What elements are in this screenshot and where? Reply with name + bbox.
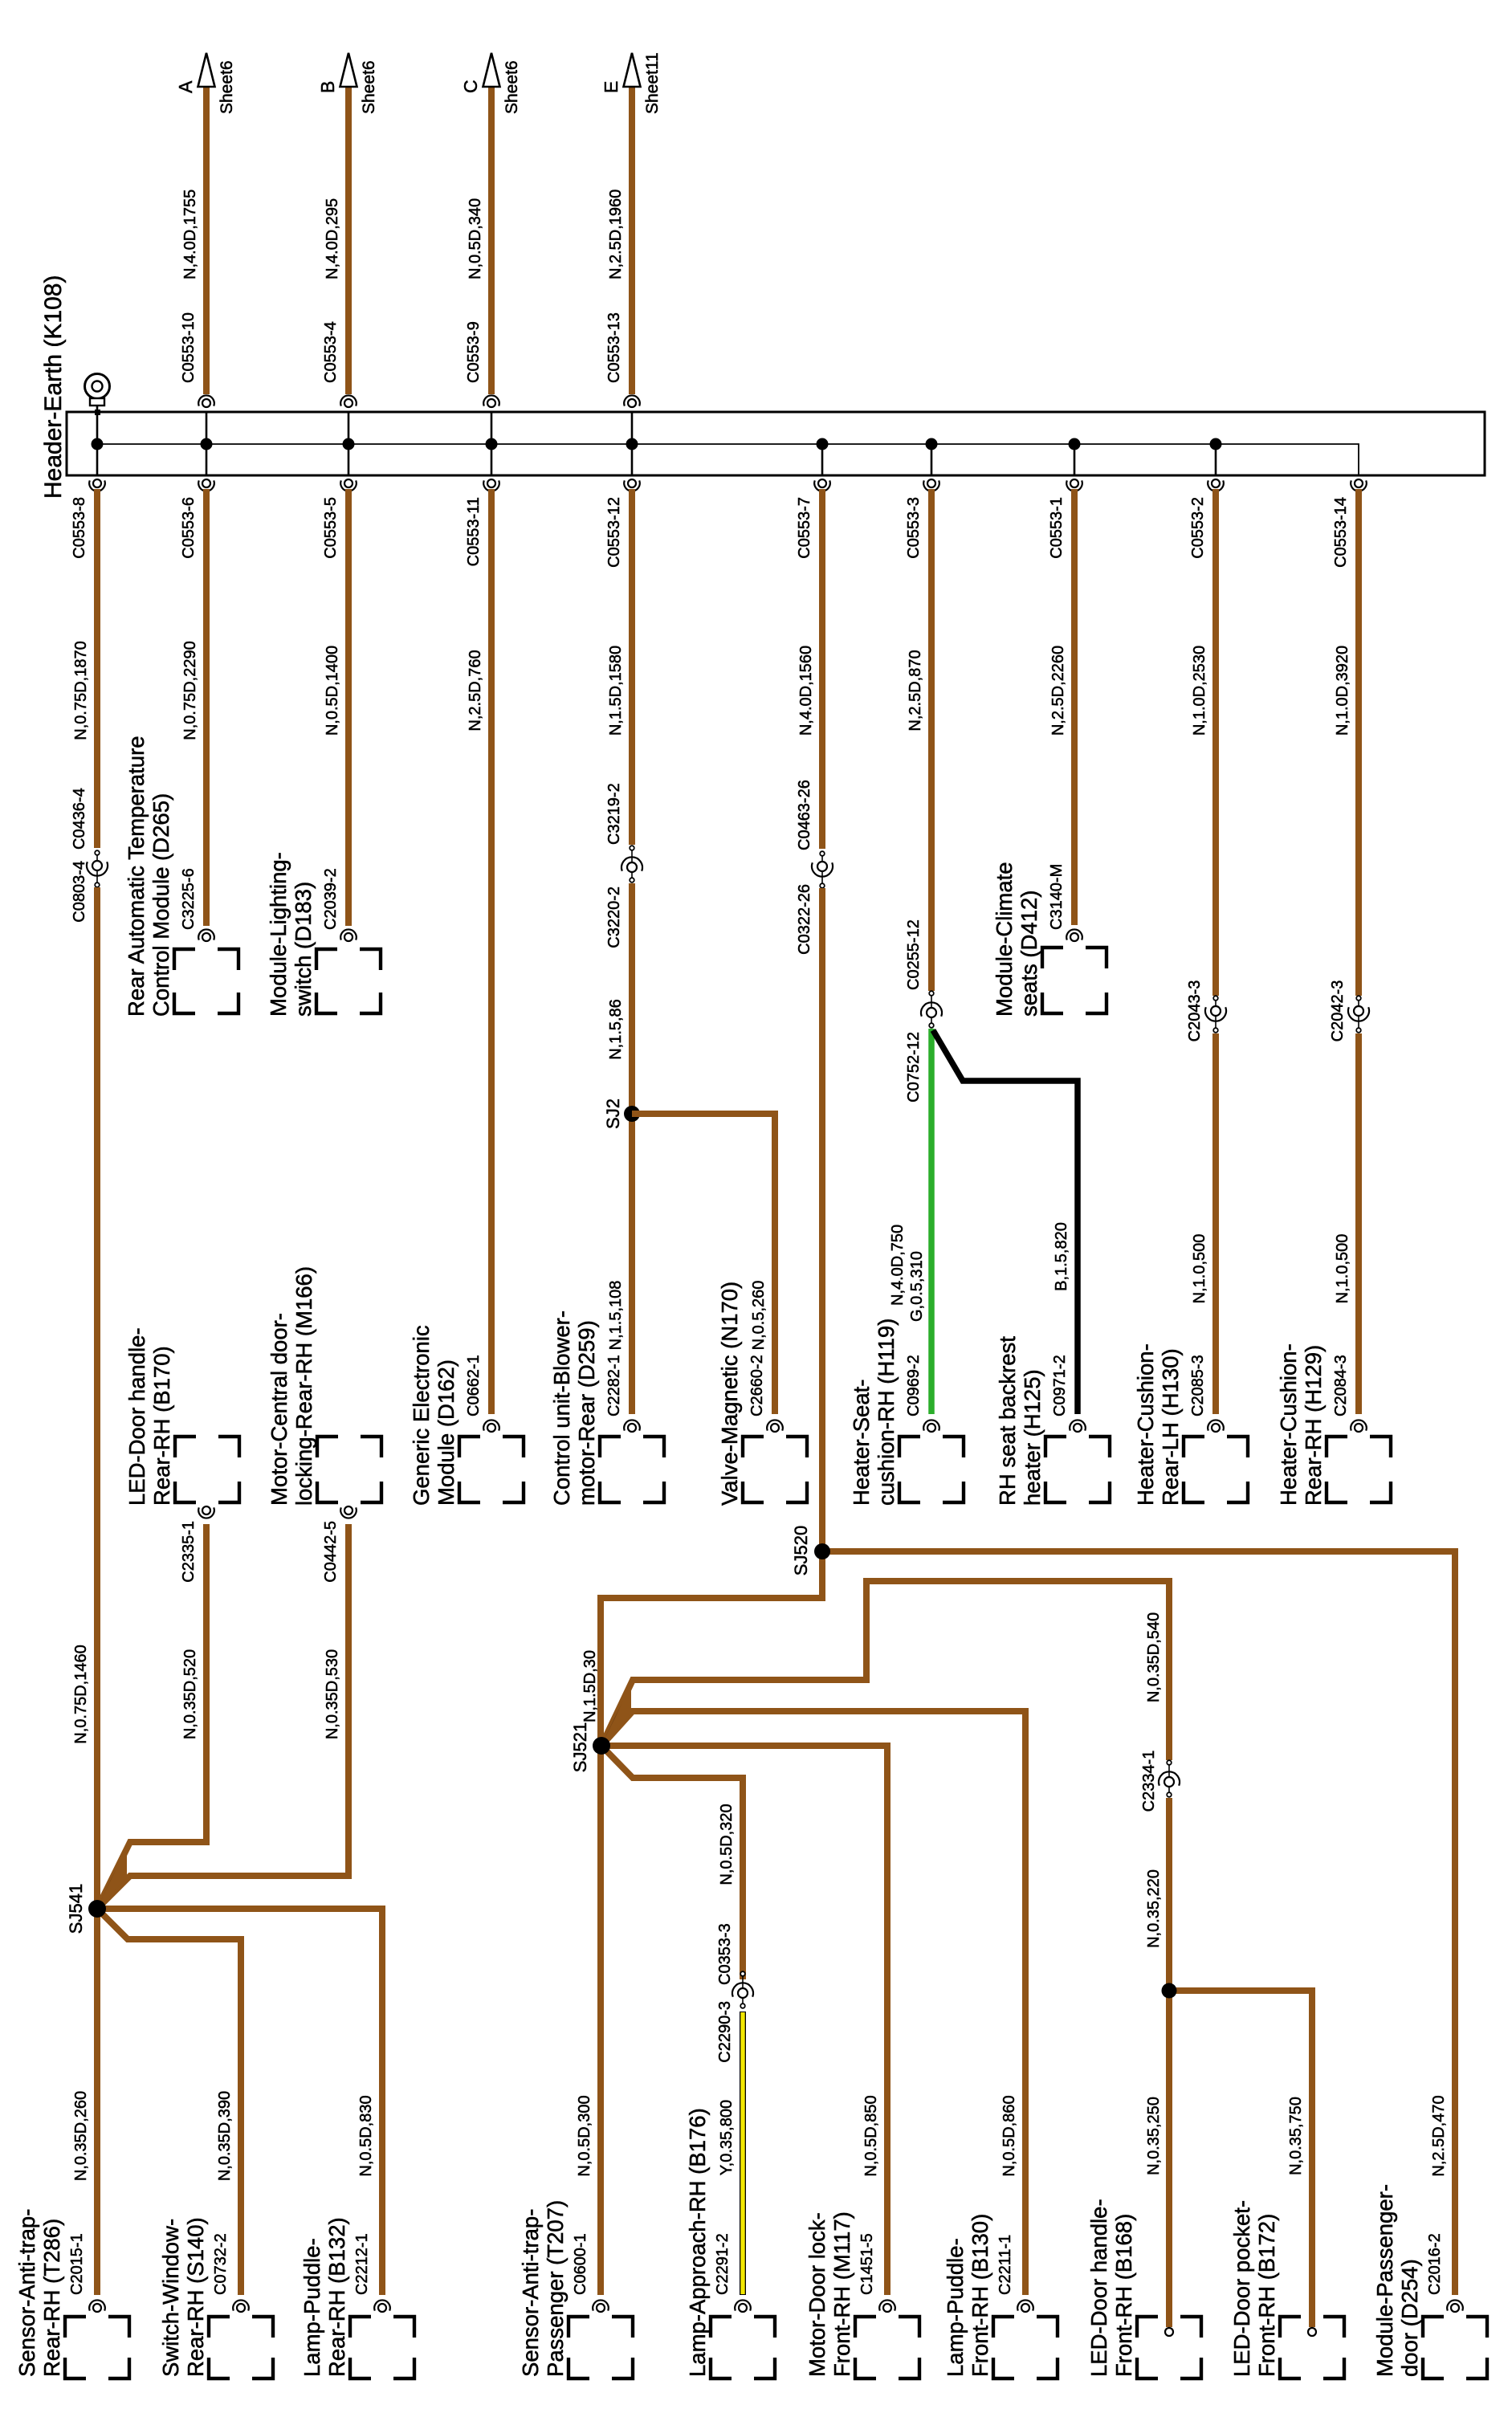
svg-text:N,1.0,500: N,1.0,500: [1334, 1234, 1351, 1304]
svg-text:C2039-2: C2039-2: [322, 868, 340, 930]
svg-text:B,1.5,820: B,1.5,820: [1053, 1222, 1070, 1291]
component M117 Motor-Door lock-Front-RH: [805, 2211, 919, 2378]
inline connector C2290-3 / C0353-3: [742, 1974, 744, 2006]
svg-text:C0662-1: C0662-1: [465, 1355, 483, 1416]
component T286 Sensor-Anti-trap-Rear-RH: [14, 2209, 129, 2378]
svg-text:C0752-12: C0752-12: [905, 1032, 923, 1103]
svg-text:Control Module (D265): Control Module (D265): [149, 793, 173, 1017]
svg-text:N,4.0D,1560: N,4.0D,1560: [797, 646, 815, 736]
svg-text:N,0.5D,300: N,0.5D,300: [576, 2095, 593, 2176]
bus stub x=612: [491, 412, 493, 475]
svg-text:C0553-11: C0553-11: [465, 497, 483, 566]
svg-text:C0553-12: C0553-12: [605, 497, 623, 568]
svg-text:Rear-RH (T286): Rear-RH (T286): [39, 2219, 64, 2377]
svg-text:N,0.35D,260: N,0.35D,260: [72, 2091, 90, 2181]
wire to sheet arrow C: [488, 84, 495, 394]
wire SJ520 down-left to SJ521: [601, 1551, 822, 1746]
svg-text:C3140-M: C3140-M: [1048, 864, 1066, 930]
svg-text:C2085-3: C2085-3: [1189, 1355, 1207, 1416]
wire column C0553-8 upper segment: [94, 489, 100, 848]
component D162 Generic Electronic Module: [409, 1325, 524, 1506]
wire C2334-1 down to branch junction: [1166, 1798, 1172, 1991]
svg-text:Module-Lighting-: Module-Lighting-: [266, 852, 291, 1017]
svg-text:N,0.5D,860: N,0.5D,860: [1001, 2095, 1018, 2176]
sheet arrow E: [624, 53, 641, 87]
svg-text:Sensor-Anti-trap-: Sensor-Anti-trap-: [518, 2209, 543, 2377]
svg-text:Rear Automatic Temperature: Rear Automatic Temperature: [124, 736, 149, 1017]
svg-text:A: A: [175, 80, 196, 93]
svg-text:C0553-2: C0553-2: [1189, 497, 1207, 559]
svg-text:SJ521: SJ521: [570, 1722, 590, 1772]
svg-text:N,0.5D,830: N,0.5D,830: [357, 2095, 375, 2176]
svg-text:N,0.35,220: N,0.35,220: [1145, 1869, 1163, 1948]
pin C2282-1: [624, 1420, 640, 1430]
svg-text:C0553-7: C0553-7: [796, 497, 813, 559]
bus pin C0553-9: [483, 395, 499, 406]
svg-text:Passenger (T207): Passenger (T207): [543, 2200, 568, 2377]
svg-text:N,1.5D,1580: N,1.5D,1580: [607, 646, 625, 736]
svg-text:C0322-26: C0322-26: [796, 884, 813, 955]
bus pin C0553-1: [1066, 480, 1082, 491]
wire branch to B172: [1169, 1991, 1312, 2327]
wire SJ521 branch to B176: [601, 1746, 743, 1979]
svg-text:Lamp-Approach-RH (B176): Lamp-Approach-RH (B176): [685, 2108, 710, 2377]
wire column C0553-14 upper segment: [1355, 489, 1362, 996]
bus pin C0553-6: [198, 480, 214, 491]
svg-text:Front-RH (B168): Front-RH (B168): [1111, 2214, 1136, 2377]
bus stub x=1338: [1074, 444, 1076, 475]
bus junction dot x=787: [626, 438, 638, 450]
bus pin C0553-2: [1208, 480, 1224, 491]
svg-text:Sensor-Anti-trap-: Sensor-Anti-trap-: [14, 2209, 39, 2377]
wire column C0553-1 to D412: [1071, 489, 1078, 925]
bus pin C0553-8: [89, 480, 105, 491]
svg-text:C3220-2: C3220-2: [605, 887, 623, 948]
svg-text:door (D254): door (D254): [1397, 2259, 1422, 2377]
bus internal wire: [97, 443, 1216, 445]
wire C2042-3 to H129: [1355, 1033, 1362, 1414]
component M166 Motor-Central door-locking-Rear-RH: [267, 1266, 381, 1506]
svg-text:N,0.5D,850: N,0.5D,850: [862, 2095, 880, 2176]
wire column C0553-12 upper segment: [629, 489, 635, 845]
svg-text:C0553-5: C0553-5: [322, 497, 340, 559]
pin C3140-M: [1066, 929, 1082, 940]
svg-text:C0553-14: C0553-14: [1332, 497, 1350, 568]
svg-text:Sheet6: Sheet6: [218, 60, 236, 114]
svg-text:C0353-3: C0353-3: [716, 1923, 734, 1985]
wire to sheet arrow A: [203, 84, 210, 394]
wire junction to B168: [1166, 1991, 1172, 2327]
svg-text:E: E: [601, 81, 622, 93]
svg-text:Valve-Magnetic (N170): Valve-Magnetic (N170): [717, 1282, 742, 1506]
bus stub x=1024: [821, 444, 824, 475]
svg-text:Rear-RH (H129): Rear-RH (H129): [1301, 1345, 1326, 1506]
component D254 Module-Passenger-door: [1372, 2184, 1487, 2378]
junction SJ2: [624, 1106, 640, 1122]
svg-text:LED-Door pocket-: LED-Door pocket-: [1229, 2200, 1254, 2377]
wire column C0553-7 upper segment: [819, 489, 825, 849]
svg-text:C0553-8: C0553-8: [71, 497, 88, 559]
component B168 LED-Door handle-Front-RH: [1086, 2199, 1201, 2378]
svg-text:Switch-Window-: Switch-Window-: [158, 2219, 183, 2377]
pin C2212-1: [374, 2300, 390, 2310]
svg-text:C0553-3: C0553-3: [905, 497, 923, 559]
svg-text:C0971-2: C0971-2: [1051, 1355, 1069, 1416]
svg-text:N,0.35D,530: N,0.35D,530: [324, 1649, 341, 1739]
svg-text:C0969-2: C0969-2: [905, 1355, 923, 1416]
svg-text:C: C: [460, 79, 481, 93]
svg-text:Heater-Cushion-: Heater-Cushion-: [1276, 1343, 1301, 1506]
pin C2660-2: [767, 1420, 783, 1430]
bus pin C0553-13: [624, 395, 640, 406]
wire column C0553-8 lower segment to SJ541 and T286: [94, 887, 100, 2295]
svg-text:N,0.35D,540: N,0.35D,540: [1145, 1612, 1163, 1702]
svg-text:Heater-Cushion-: Heater-Cushion-: [1133, 1343, 1158, 1506]
svg-text:locking-Rear-RH (M166): locking-Rear-RH (M166): [291, 1266, 316, 1506]
component H129 Heater-Cushion-Rear-RH: [1276, 1343, 1391, 1506]
bus junction dot x=1160: [926, 438, 938, 450]
SJ541 junction wedge: [97, 1846, 127, 1909]
svg-text:N,0.35,750: N,0.35,750: [1287, 2097, 1305, 2175]
bus stub x=434: [348, 412, 350, 475]
wire column C0553-6 to D265: [203, 489, 210, 926]
component H125 RH seat backrest heater: [995, 1336, 1110, 1506]
bus stub x=787: [631, 412, 634, 475]
svg-text:C0436-4: C0436-4: [71, 788, 88, 850]
inline connector C3220-2 / C3219-2: [631, 848, 633, 880]
bus junction dot x=434: [343, 438, 355, 450]
svg-text:N,1.0,500: N,1.0,500: [1191, 1234, 1208, 1304]
pin C0969-2: [923, 1420, 939, 1430]
svg-text:C3225-6: C3225-6: [180, 868, 198, 930]
svg-text:N,1.5D,30: N,1.5D,30: [581, 1650, 599, 1722]
svg-text:N,2.5D,2260: N,2.5D,2260: [1049, 646, 1067, 736]
svg-text:Module-Passenger-: Module-Passenger-: [1372, 2184, 1397, 2377]
svg-text:C0442-5: C0442-5: [322, 1521, 340, 1583]
svg-text:N,0.35D,520: N,0.35D,520: [181, 1649, 199, 1739]
svg-text:N,0.5D,340: N,0.5D,340: [467, 198, 484, 279]
inline connector C0322-26 / C0463-26: [821, 854, 823, 886]
svg-text:C2282-1: C2282-1: [605, 1355, 623, 1416]
wire to sheet arrow E: [629, 84, 635, 394]
svg-text:C0553-4: C0553-4: [322, 321, 340, 383]
svg-text:Front-RH (B172): Front-RH (B172): [1254, 2214, 1279, 2377]
wire SJ520 branch right to D254: [822, 1551, 1455, 2295]
pin C0662-1: [483, 1420, 499, 1430]
bus pin C0553-4: [340, 395, 357, 406]
inline connector C2334-1: [1168, 1763, 1170, 1795]
svg-text:Sheet6: Sheet6: [360, 60, 378, 114]
svg-text:N,0.75D,1460: N,0.75D,1460: [72, 1645, 90, 1743]
bus junction dot x=1024: [817, 438, 829, 450]
component N170 Valve-Magnetic: [717, 1282, 807, 1506]
pin C1451-5: [879, 2300, 895, 2310]
wire SJ541 NE branch to M166: [97, 1524, 348, 1909]
black wire to H125: [933, 1030, 1078, 1414]
svg-text:Rear-RH (S140): Rear-RH (S140): [183, 2217, 208, 2377]
svg-text:N,1.0D,3920: N,1.0D,3920: [1334, 646, 1351, 736]
component B132 Lamp-Puddle-Rear-RH: [300, 2217, 414, 2378]
svg-text:C3219-2: C3219-2: [605, 783, 623, 845]
svg-text:C2212-1: C2212-1: [353, 2233, 371, 2295]
svg-text:C2335-1: C2335-1: [180, 1521, 198, 1583]
svg-text:C2042-3: C2042-3: [1329, 980, 1347, 1042]
wire SJ541 SE branch to S140: [97, 1909, 241, 2295]
svg-text:C0463-26: C0463-26: [796, 780, 813, 850]
pin C2016-2: [1447, 2300, 1463, 2310]
svg-text:C0553-6: C0553-6: [180, 497, 198, 559]
pin C2015-1: [89, 2300, 105, 2310]
svg-text:C0553-10: C0553-10: [180, 312, 198, 383]
svg-text:seats (D412): seats (D412): [1017, 891, 1041, 1017]
svg-text:Module (D162): Module (D162): [434, 1359, 458, 1506]
bus stub x=257: [206, 412, 208, 475]
wire SJ541 branch to B132: [97, 1909, 382, 2295]
svg-text:cushion-RH (H119): cushion-RH (H119): [874, 1319, 899, 1506]
header-earth bus K108: [67, 412, 1485, 475]
bus junction dot x=121: [92, 438, 104, 450]
wire SJ541 NE branch to B170: [97, 1524, 206, 1909]
SJ521 junction wedge: [601, 1684, 631, 1746]
wire C2043-3 to H130: [1212, 1033, 1219, 1414]
svg-text:Rear-RH (B132): Rear-RH (B132): [324, 2217, 349, 2377]
component H119 Heater-Seat-cushion-RH: [849, 1319, 964, 1506]
svg-text:N,2.5D,760: N,2.5D,760: [467, 650, 484, 731]
svg-text:N,4.0D,750: N,4.0D,750: [889, 1225, 907, 1306]
svg-text:heater (H125): heater (H125): [1020, 1369, 1045, 1506]
svg-text:Lamp-Puddle-: Lamp-Puddle-: [943, 2238, 968, 2377]
pin C0442-5: [340, 1507, 357, 1518]
bus pin C0553-11: [483, 480, 499, 491]
svg-text:N,0.35D,390: N,0.35D,390: [216, 2091, 234, 2181]
svg-text:N,2.5D,870: N,2.5D,870: [907, 650, 924, 731]
sheet arrow A: [198, 53, 215, 87]
svg-text:N,0.5,260: N,0.5,260: [750, 1281, 768, 1351]
pin C2291-2: [735, 2300, 751, 2310]
svg-text:RH seat backrest: RH seat backrest: [995, 1336, 1020, 1506]
svg-text:C0732-2: C0732-2: [212, 2233, 230, 2295]
component D265 Rear Automatic Temperature Control Module: [124, 736, 238, 1017]
bus pin C0553-12: [624, 480, 640, 491]
component D259 Control unit-Blower-motor-Rear: [549, 1310, 664, 1506]
component D412 Module-Climate seats: [992, 862, 1106, 1017]
svg-text:Sheet11: Sheet11: [643, 52, 662, 114]
wire SJ521 down to T207: [597, 1746, 604, 2295]
svg-text:Rear-LH (H130): Rear-LH (H130): [1158, 1348, 1183, 1506]
svg-text:motor-Rear (D259): motor-Rear (D259): [574, 1320, 599, 1506]
component B170 LED-Door handle-Rear-RH: [124, 1327, 239, 1506]
svg-text:Rear-RH (B170): Rear-RH (B170): [149, 1346, 174, 1506]
component B176 Lamp-Approach-RH: [685, 2108, 775, 2378]
svg-text:switch (D183): switch (D183): [291, 882, 316, 1017]
svg-text:Generic Electronic: Generic Electronic: [409, 1325, 434, 1506]
svg-text:N,0.75D,1870: N,0.75D,1870: [72, 641, 90, 740]
svg-text:Y,0.35,800: Y,0.35,800: [718, 2100, 736, 2175]
wire C3220-2 to SJ2 and D259: [629, 883, 635, 1414]
bus internal wire elbow to C0553-14: [1216, 444, 1359, 475]
svg-text:N,4.0D,1755: N,4.0D,1755: [181, 190, 199, 279]
pin C2085-3: [1208, 1420, 1224, 1430]
inline connector C0752-12 / C0255-12: [931, 993, 932, 1025]
pin C0600-1: [593, 2300, 609, 2310]
component B130 Lamp-Puddle-Front-RH: [943, 2214, 1058, 2378]
bus junction dot x=257: [201, 438, 213, 450]
wire C0322-26 down to SJ520: [819, 888, 825, 1551]
wire to sheet arrow B: [345, 84, 352, 394]
wire SJ2 branch to N170: [632, 1114, 775, 1414]
svg-text:Control unit-Blower-: Control unit-Blower-: [549, 1310, 574, 1506]
svg-text:C2043-3: C2043-3: [1186, 980, 1204, 1042]
bus stub x=1160: [931, 444, 933, 475]
svg-text:G,0.5,310: G,0.5,310: [908, 1251, 926, 1322]
component T207 Sensor-Anti-trap-Passenger: [518, 2200, 633, 2378]
pin C2039-2: [340, 929, 357, 940]
svg-text:C0803-4: C0803-4: [71, 861, 88, 923]
pin C0732-2: [233, 2300, 249, 2310]
yellow wire to B176: [740, 2012, 746, 2295]
svg-text:Heater-Seat-: Heater-Seat-: [849, 1380, 874, 1506]
bus stub at ring terminal column: [96, 406, 99, 475]
bus pin C0553-10: [198, 395, 214, 406]
svg-text:C0553-1: C0553-1: [1048, 497, 1066, 559]
wire SJ521 branch to B130: [601, 1711, 1025, 2295]
svg-text:Motor-Door lock-: Motor-Door lock-: [805, 2212, 829, 2377]
svg-text:C2016-2: C2016-2: [1426, 2233, 1444, 2295]
svg-text:C2290-3: C2290-3: [716, 2001, 734, 2063]
svg-text:N,0.5D,320: N,0.5D,320: [718, 1804, 736, 1885]
svg-text:C0553-9: C0553-9: [465, 321, 483, 383]
svg-text:N,1.5,86: N,1.5,86: [607, 999, 625, 1060]
svg-text:N,0.35,250: N,0.35,250: [1145, 2097, 1163, 2175]
svg-text:C2211-1: C2211-1: [996, 2235, 1014, 2295]
svg-text:Header-Earth (K108): Header-Earth (K108): [40, 275, 67, 499]
svg-text:C2660-2: C2660-2: [748, 1355, 766, 1416]
svg-text:Sheet6: Sheet6: [503, 60, 521, 114]
svg-text:Module-Climate: Module-Climate: [992, 862, 1017, 1017]
green wire to H119: [928, 1029, 935, 1414]
svg-text:N,2.5D,1960: N,2.5D,1960: [607, 190, 625, 279]
svg-text:C2291-2: C2291-2: [714, 2233, 732, 2295]
wire column C0553-3 upper segment: [928, 489, 935, 991]
bus junction dot x=1514: [1210, 438, 1222, 450]
svg-text:C2084-3: C2084-3: [1332, 1355, 1350, 1416]
sheet arrow C: [483, 53, 500, 87]
svg-text:N,1.5,108: N,1.5,108: [607, 1281, 625, 1351]
component S140 Switch-Window-Rear-RH: [158, 2217, 273, 2378]
svg-text:B: B: [317, 81, 338, 93]
svg-text:C0255-12: C0255-12: [905, 919, 923, 990]
wire column C0553-5 to D183: [345, 489, 352, 926]
svg-text:C1451-5: C1451-5: [858, 2233, 876, 2295]
svg-text:Front-RH (B130): Front-RH (B130): [968, 2214, 992, 2377]
wire column C0553-2 upper segment: [1212, 489, 1219, 996]
pin C3225-6: [198, 929, 214, 940]
bus stub x=1514: [1215, 444, 1217, 475]
component B172 LED-Door pocket-Front-RH: [1229, 2200, 1344, 2378]
svg-text:C0553-13: C0553-13: [605, 312, 623, 383]
svg-text:N,2.5D,470: N,2.5D,470: [1430, 2095, 1448, 2176]
wire SJ521 branch to M117: [601, 1746, 887, 2295]
component D183 Module-Lighting-switch: [266, 852, 381, 1017]
svg-text:N,4.0D,295: N,4.0D,295: [324, 198, 341, 279]
svg-text:C2334-1: C2334-1: [1140, 1751, 1158, 1812]
bus pin C0553-5: [340, 480, 357, 491]
component H130 Heater-Cushion-Rear-LH: [1133, 1343, 1248, 1506]
pin circle B168: [1165, 2328, 1173, 2336]
svg-text:Lamp-Puddle-: Lamp-Puddle-: [300, 2238, 324, 2377]
svg-text:C0600-1: C0600-1: [572, 2233, 589, 2295]
svg-text:Front-RH (M117): Front-RH (M117): [829, 2211, 854, 2377]
junction dot B168/B172: [1162, 1983, 1177, 1999]
pin C0971-2: [1070, 1420, 1086, 1430]
svg-text:N,0.75D,2290: N,0.75D,2290: [181, 641, 199, 740]
sheet arrow B: [340, 53, 357, 87]
pin circle B172: [1308, 2328, 1316, 2336]
svg-text:LED-Door handle-: LED-Door handle-: [124, 1327, 149, 1506]
bus pin C0553-3: [923, 480, 939, 491]
inline connector C0803-4 / C0436-4: [96, 853, 98, 885]
inline connector C2043-3: [1215, 998, 1217, 1030]
svg-text:Motor-Central door-: Motor-Central door-: [267, 1313, 291, 1506]
wire column C0553-11 to D162: [488, 489, 495, 1414]
bus pin C0553-7: [814, 480, 830, 491]
pin C2335-1: [198, 1507, 214, 1518]
pin C2084-3: [1351, 1420, 1367, 1430]
wire SJ521 NE branch to C2334-1 column: [601, 1581, 1169, 1760]
svg-text:SJ520: SJ520: [791, 1526, 811, 1575]
svg-text:SJ541: SJ541: [66, 1884, 86, 1934]
svg-text:LED-Door handle-: LED-Door handle-: [1086, 2199, 1111, 2377]
bus pin C0553-14: [1351, 480, 1367, 491]
svg-text:C2015-1: C2015-1: [68, 2233, 86, 2295]
pin C2211-1: [1017, 2300, 1033, 2310]
svg-text:N,0.5D,1400: N,0.5D,1400: [324, 646, 341, 736]
inline connector C2042-3: [1358, 998, 1359, 1030]
svg-text:N,1.0D,2530: N,1.0D,2530: [1191, 646, 1208, 736]
svg-text:SJ2: SJ2: [603, 1099, 623, 1129]
bus junction dot x=1338: [1069, 438, 1081, 450]
ground ring terminal K108: [85, 374, 110, 399]
bus junction dot x=612: [486, 438, 498, 450]
